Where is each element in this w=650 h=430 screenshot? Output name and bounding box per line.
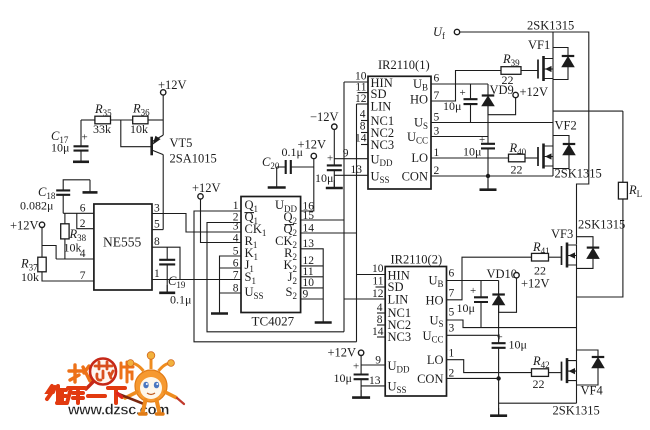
wire source return lower bridge	[499, 402, 577, 404]
wire	[549, 372, 562, 374]
svg-text:9: 9	[343, 148, 349, 160]
svg-text:13: 13	[303, 238, 315, 250]
svg-text:4: 4	[233, 233, 239, 245]
wire	[63, 180, 90, 191]
svg-text:VF3: VF3	[551, 227, 573, 241]
wire TC4027 pin16 UDD to +12V	[301, 159, 314, 211]
wire US1 line	[431, 122, 553, 124]
svg-text:2SK1315: 2SK1315	[555, 167, 602, 181]
wire NC stubs IR2110(2)	[377, 312, 385, 314]
svg-text:+: +	[327, 153, 333, 165]
svg-text:1: 1	[449, 348, 455, 360]
svg-text:5: 5	[449, 307, 455, 319]
wire	[111, 119, 133, 121]
svg-text:+: +	[497, 332, 503, 344]
wire HO2 to R41	[447, 257, 532, 300]
svg-text:IR2110(2): IR2110(2)	[391, 253, 443, 267]
svg-text:10μ: 10μ	[457, 301, 475, 315]
wire	[470, 104, 472, 122]
wire USS line IR2110(1)	[334, 174, 368, 176]
wire	[64, 213, 66, 224]
svg-text:8: 8	[360, 121, 366, 133]
ground	[498, 408, 500, 416]
diode VF4 body	[577, 350, 599, 357]
wire	[81, 119, 95, 121]
svg-text:10μ: 10μ	[463, 145, 481, 159]
wire	[148, 119, 163, 121]
IC TC4027 dual JK flip-flop	[241, 197, 301, 313]
svg-text:HO: HO	[425, 294, 443, 308]
wire LO2 to R42	[447, 360, 532, 373]
svg-text:+: +	[470, 285, 476, 297]
svg-text:11: 11	[372, 276, 383, 288]
svg-text:5: 5	[434, 112, 440, 124]
svg-text:4: 4	[377, 302, 383, 314]
svg-text:LIN: LIN	[371, 100, 392, 114]
node CON1 junction	[486, 174, 490, 178]
svg-text:4: 4	[80, 248, 86, 260]
diode VF3 body	[577, 237, 594, 248]
svg-text:+12V: +12V	[192, 181, 221, 195]
svg-text:NC3: NC3	[388, 330, 412, 344]
wire	[577, 199, 623, 297]
transistor VF4 2SK1315 MOSFET	[561, 362, 563, 381]
svg-text:VT5: VT5	[170, 136, 193, 150]
svg-text:+: +	[82, 132, 88, 144]
ground	[360, 390, 362, 398]
svg-text:3: 3	[434, 126, 440, 138]
wire VF4 source down	[576, 381, 578, 404]
svg-text:2SA1015: 2SA1015	[170, 152, 217, 166]
svg-text:10μ: 10μ	[509, 338, 527, 352]
wire	[487, 84, 489, 96]
svg-text:2: 2	[434, 165, 440, 177]
svg-text:22: 22	[533, 377, 545, 391]
wire UCC2 line	[447, 334, 499, 336]
wire	[333, 129, 335, 165]
svg-text:+12V: +12V	[10, 219, 39, 233]
wire	[521, 70, 538, 72]
wire	[291, 166, 314, 168]
svg-text:HO: HO	[410, 93, 428, 107]
svg-text:7: 7	[434, 90, 440, 102]
svg-text:5: 5	[233, 246, 239, 258]
svg-text:6: 6	[449, 268, 455, 280]
wire K1 J1 USS ground tie	[220, 256, 242, 305]
svg-text:2SK1315: 2SK1315	[578, 218, 625, 232]
wire SD1 stub	[358, 92, 369, 94]
svg-text:4: 4	[360, 109, 366, 121]
overline for Q2bar	[285, 224, 295, 226]
svg-text:2SK1315: 2SK1315	[527, 19, 574, 33]
ground	[80, 151, 82, 162]
svg-text:3: 3	[154, 203, 160, 215]
wire	[162, 95, 164, 135]
svg-text:13: 13	[351, 164, 363, 176]
svg-text:14: 14	[355, 133, 367, 145]
ground	[166, 285, 168, 293]
wire VD9 anode to +12V	[488, 98, 516, 115]
wire	[64, 239, 66, 259]
op-amp U1 NE555 timer	[94, 204, 152, 290]
svg-text:8: 8	[154, 236, 160, 248]
wire HIN2	[357, 274, 386, 276]
wire HIN1	[344, 81, 368, 83]
svg-text:IR2110(1): IR2110(1)	[378, 58, 430, 72]
wire NE555 pin1 / TC4027 S1 line	[152, 279, 241, 281]
svg-text:+12V: +12V	[328, 346, 357, 360]
svg-text:UB: UB	[413, 77, 428, 93]
svg-text:USS: USS	[245, 285, 264, 301]
svg-text:US: US	[429, 314, 443, 330]
ground	[89, 180, 91, 193]
wire NE555 pin8	[152, 247, 180, 279]
wire	[480, 302, 482, 328]
watermark text weikuyixia	[47, 386, 125, 403]
power +12V terminal (VD10)	[514, 273, 519, 278]
watermark char xin	[95, 362, 113, 380]
svg-text:RL: RL	[628, 183, 642, 199]
svg-text:VF4: VF4	[581, 384, 604, 398]
overline for Q1bar	[245, 212, 255, 214]
watermark magnifier circle	[90, 359, 116, 385]
wire NE555 pin3 to TC4027 CK1	[152, 214, 241, 233]
svg-text:6: 6	[80, 203, 86, 215]
svg-text:R42: R42	[532, 354, 550, 370]
wire VD10 anode to +12V	[499, 278, 517, 313]
svg-text:LIN: LIN	[388, 293, 409, 307]
svg-text:10k: 10k	[21, 270, 39, 284]
svg-text:S2: S2	[286, 285, 297, 301]
svg-text:TC4027: TC4027	[252, 314, 295, 329]
svg-text:CON: CON	[402, 170, 428, 184]
svg-text:14: 14	[372, 326, 384, 338]
wire	[498, 281, 500, 295]
svg-text:3: 3	[233, 221, 239, 233]
watermark mascot	[118, 352, 185, 414]
svg-text:8: 8	[233, 283, 239, 295]
wire	[276, 167, 278, 180]
wire CON2 line	[447, 377, 499, 379]
wire VF1 source vertical	[552, 79, 554, 147]
diode VF1 body	[553, 48, 568, 57]
wire	[62, 195, 64, 214]
wire VF3 source vertical	[576, 265, 578, 361]
svg-text:+: +	[460, 87, 466, 99]
wire +12V to UCC1	[487, 106, 489, 144]
svg-text:0.1μ: 0.1μ	[170, 293, 191, 307]
svg-text:+12V: +12V	[520, 85, 549, 99]
wire	[41, 228, 43, 258]
svg-text:VD10: VD10	[487, 267, 518, 281]
svg-text:1: 1	[434, 147, 440, 159]
wire +12V to UCC2	[498, 305, 500, 343]
watermark char zhao	[69, 365, 92, 382]
wire VF1 drain to rail	[552, 32, 554, 59]
wire	[333, 170, 335, 188]
watermark char pian	[121, 362, 133, 382]
wire UDD line IR2110(1)	[334, 158, 368, 160]
svg-text:11: 11	[355, 82, 366, 94]
wire USS2 line	[361, 385, 385, 387]
wire SD2 stub	[376, 286, 386, 288]
wire NE555 pin6 line	[63, 212, 94, 214]
wire LIN2	[344, 298, 385, 300]
wire NE555 pin5 stub	[152, 229, 163, 231]
wire	[487, 148, 489, 187]
svg-text:NC3: NC3	[371, 138, 395, 152]
svg-text:10μ: 10μ	[334, 371, 352, 385]
svg-text:UCC: UCC	[407, 130, 428, 146]
svg-text:UCC: UCC	[422, 329, 443, 345]
wire	[166, 264, 168, 292]
svg-text:+12V: +12V	[521, 277, 550, 291]
wire R35-R36 junction to VT5 base	[121, 120, 151, 147]
svg-text:10: 10	[372, 263, 384, 275]
wire VF2 source to CON line	[552, 166, 554, 176]
ground	[487, 180, 489, 190]
wire Q2 bus (pin15 - HIN1 - LIN2)	[301, 219, 344, 221]
wire UCC1 line	[431, 136, 488, 138]
wire	[277, 166, 286, 168]
svg-text:UDD: UDD	[388, 359, 411, 375]
svg-text:USS: USS	[388, 380, 407, 396]
wire	[480, 281, 482, 298]
svg-text:UB: UB	[428, 274, 443, 290]
watermark logo dzsc	[47, 352, 184, 419]
wire	[470, 84, 472, 99]
wire +12V to R1	[201, 199, 242, 242]
wire pin6-pin2 tie	[77, 213, 94, 228]
svg-text:0.082μ: 0.082μ	[20, 199, 53, 213]
wire	[360, 379, 362, 397]
wire	[498, 348, 500, 416]
svg-text:www.dzsc.com: www.dzsc.com	[67, 402, 169, 419]
svg-text:US: US	[414, 116, 428, 132]
power +12V terminal (VD9)	[513, 92, 518, 97]
wire	[360, 356, 362, 375]
svg-text:Uf: Uf	[433, 25, 445, 41]
svg-text:7: 7	[80, 270, 86, 282]
svg-text:−12V: −12V	[310, 110, 339, 124]
svg-text:13: 13	[369, 375, 381, 387]
svg-text:VF1: VF1	[528, 38, 550, 52]
ground	[333, 180, 335, 188]
svg-text:C19: C19	[168, 274, 186, 290]
wire top rail	[460, 32, 589, 245]
svg-text:22: 22	[511, 163, 523, 177]
svg-text:S1: S1	[245, 270, 256, 286]
svg-text:10: 10	[303, 277, 315, 289]
wire	[80, 120, 82, 146]
wire	[549, 256, 562, 258]
wire	[525, 157, 538, 159]
wire LO1 to R40	[431, 157, 509, 159]
wire US2 line	[447, 320, 577, 328]
svg-text:CON: CON	[417, 372, 443, 386]
node CON2 junction	[496, 376, 500, 380]
wire UB1 line	[431, 83, 488, 85]
wire	[166, 247, 168, 260]
svg-text:22: 22	[534, 264, 546, 278]
wire Q1 vertical to lower bus	[194, 211, 357, 342]
svg-text:1: 1	[154, 268, 160, 280]
svg-text:VF2: VF2	[555, 119, 577, 133]
svg-text:1: 1	[233, 200, 239, 212]
wire	[42, 272, 94, 281]
wire LIN1	[357, 103, 369, 105]
svg-text:2: 2	[449, 368, 455, 380]
ground	[322, 314, 324, 323]
svg-text:R36: R36	[132, 102, 150, 118]
wire Q2bar bus (pin14 - LIN1 - HIN2)	[301, 232, 357, 234]
resistor RL load	[622, 111, 624, 182]
wire pins 13,12,11,10,9 tie to ground	[301, 249, 324, 314]
ground	[219, 305, 221, 314]
svg-text:2: 2	[80, 218, 86, 230]
svg-text:0.1μ: 0.1μ	[282, 145, 303, 159]
wire UB2 line	[447, 280, 499, 282]
svg-text:LO: LO	[427, 353, 444, 367]
svg-text:10μ: 10μ	[315, 171, 333, 185]
svg-text:22: 22	[502, 73, 514, 87]
wire NE555 pin4 line	[56, 258, 94, 260]
wire VT5 collector to NE555 pin5	[162, 155, 164, 230]
svg-text:8: 8	[377, 314, 383, 326]
wire CON1 line	[431, 175, 553, 177]
wire NC stubs	[361, 120, 368, 122]
svg-text:6: 6	[233, 258, 239, 270]
svg-text:LO: LO	[411, 151, 428, 165]
svg-text:NE555: NE555	[103, 235, 141, 250]
svg-text:2SK1315: 2SK1315	[553, 404, 600, 418]
diode VF2 body	[553, 136, 569, 145]
svg-text:3: 3	[449, 323, 455, 335]
wire Q1bar vertical to upper bus	[207, 223, 344, 332]
svg-text:7: 7	[233, 270, 239, 282]
wire bridge midpoint to RL	[553, 110, 623, 112]
wire	[42, 246, 56, 260]
svg-text:R39: R39	[502, 52, 520, 68]
svg-text:+: +	[353, 361, 359, 373]
svg-text:12: 12	[355, 93, 367, 105]
svg-text:12: 12	[372, 288, 384, 300]
svg-text:5: 5	[154, 219, 160, 231]
svg-text:6: 6	[434, 73, 440, 85]
svg-text:10μ: 10μ	[51, 141, 69, 155]
svg-text:UDD: UDD	[371, 153, 394, 169]
svg-text:7: 7	[449, 288, 455, 300]
ground	[276, 180, 278, 188]
wire HO1 to R39	[431, 71, 501, 102]
svg-text:USS: USS	[371, 170, 390, 186]
wire UDD2 line	[361, 364, 385, 366]
